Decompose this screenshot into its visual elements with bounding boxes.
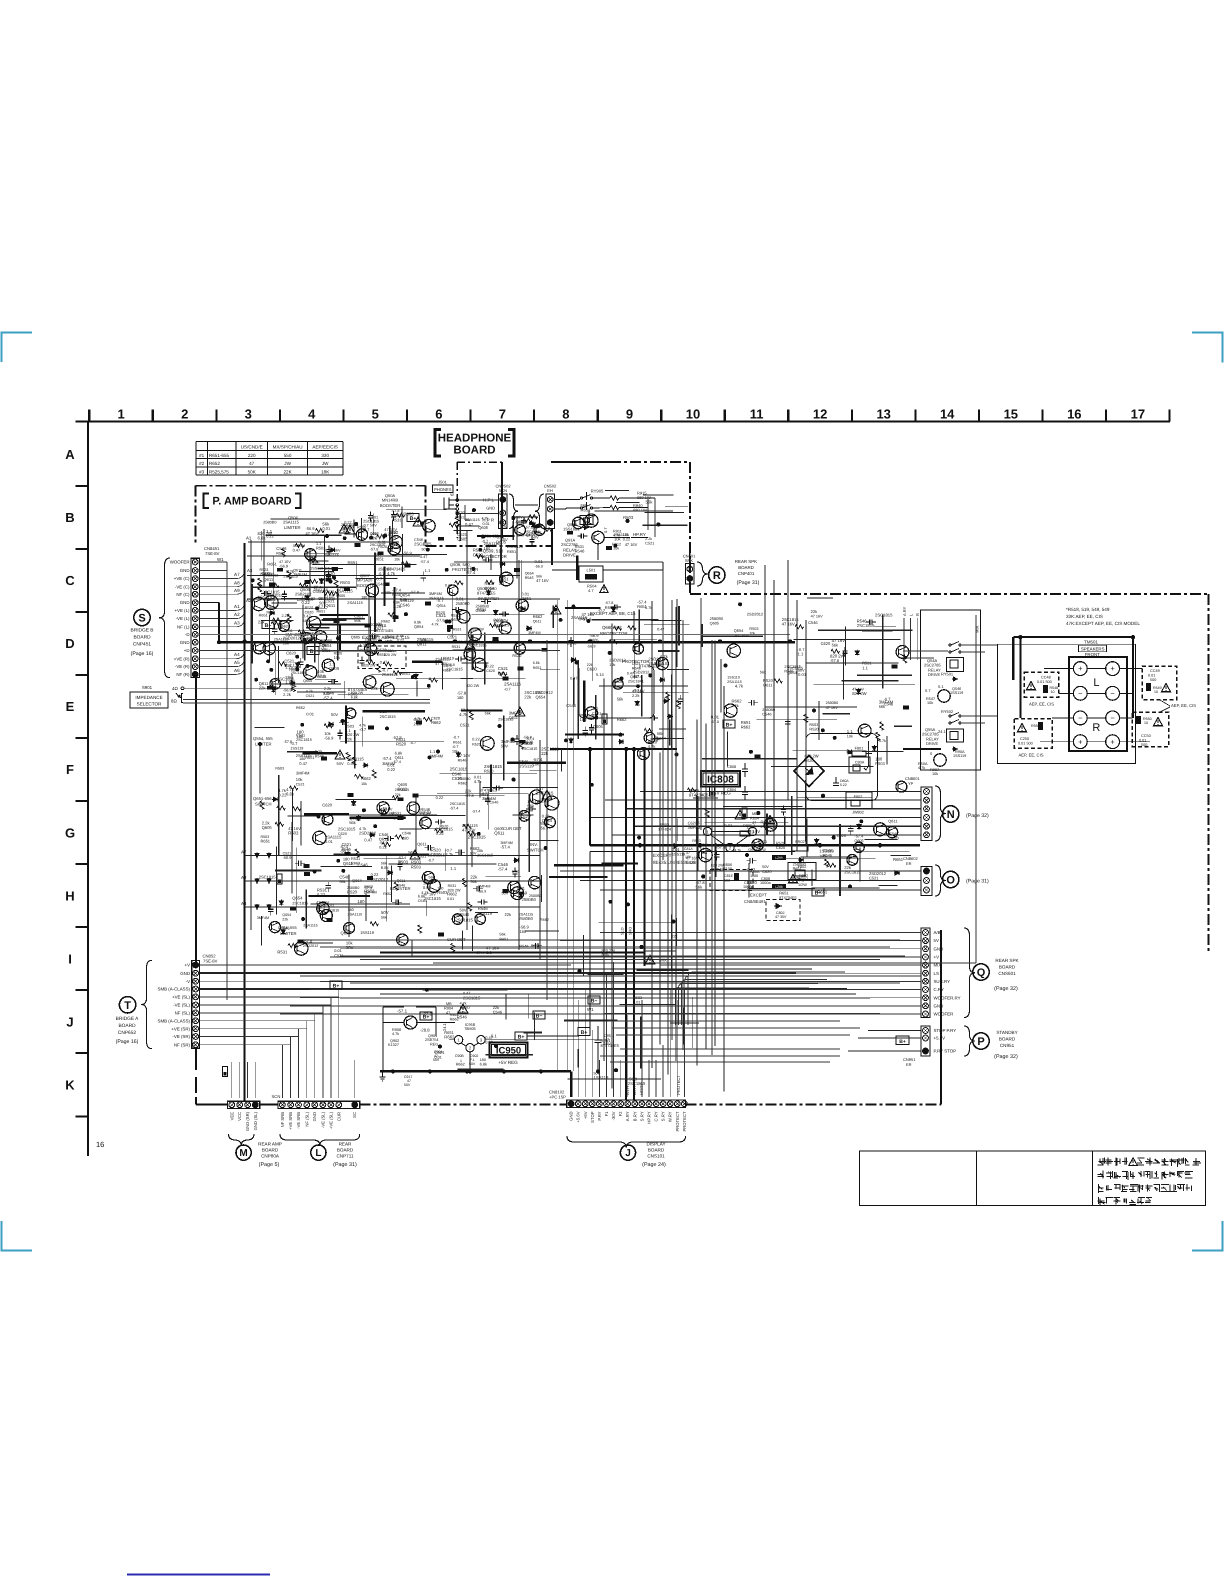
svg-text:T: T — [124, 1000, 131, 1012]
svg-text:A7: A7 — [234, 572, 240, 577]
wire S hook wires A1-A9 — [227, 572, 244, 674]
svg-text:R525,575: R525,575 — [209, 469, 229, 474]
node QMN labels — [380, 493, 400, 508]
component relay drive block — [918, 610, 981, 776]
svg-text:R531: R531 — [453, 627, 462, 631]
svg-text:50V: 50V — [532, 535, 540, 540]
svg-text:2.2k: 2.2k — [283, 692, 292, 697]
component relay JW802 — [846, 792, 872, 809]
svg-text:22k: 22k — [395, 793, 401, 797]
node S board text — [131, 628, 154, 658]
svg-text:BOARD: BOARD — [738, 565, 754, 570]
svg-text:L501: L501 — [587, 568, 597, 573]
node R504 text — [587, 584, 608, 594]
svg-text:4.7: 4.7 — [588, 588, 594, 593]
svg-text:GND: GND — [486, 506, 495, 511]
svg-text:24.1: 24.1 — [938, 729, 947, 734]
svg-text:R503: R503 — [749, 627, 758, 631]
wire vertical bus SRO — [633, 749, 635, 1100]
svg-text:IMPEDANCE: IMPEDANCE — [135, 695, 162, 700]
svg-text:(Page 16): (Page 16) — [131, 651, 154, 657]
component S901 impedance selector — [130, 685, 184, 708]
svg-text:56k: 56k — [879, 705, 885, 709]
wire bus y845 — [590, 844, 920, 846]
svg-text:8T4734E5: 8T4734E5 — [480, 788, 498, 792]
svg-text:+VE (L): +VE (L) — [174, 608, 190, 613]
svg-text:0.01: 0.01 — [633, 1001, 640, 1005]
svg-text:CUR DET: CUR DET — [503, 826, 522, 831]
wire rail x467 — [466, 530, 468, 930]
svg-text:R520: R520 — [347, 890, 358, 895]
svg-text:CC49: CC49 — [1150, 669, 1160, 673]
svg-text:10k: 10k — [932, 772, 938, 776]
node boxed B- row D — [262, 621, 274, 629]
node boxed B+ ic950 a — [515, 1032, 527, 1040]
svg-text:A8: A8 — [234, 580, 240, 585]
wire horizontal h2 — [380, 968, 812, 970]
wire blue footer line — [127, 1574, 270, 1576]
svg-text:2SC1815: 2SC1815 — [450, 802, 465, 806]
svg-text:2SA1115: 2SA1115 — [348, 912, 363, 916]
node protector rounded box — [579, 666, 654, 718]
wire bus y851 — [590, 851, 795, 853]
node warning triangle 5 — [465, 640, 475, 649]
svg-text:CNP401: CNP401 — [738, 571, 755, 576]
svg-text:C620: C620 — [486, 669, 495, 673]
node IC950 values — [442, 1022, 497, 1038]
transistor Q647 — [613, 679, 623, 689]
svg-text:R503: R503 — [761, 820, 771, 825]
wire vertical bus SLO — [625, 749, 627, 1100]
svg-text:180: 180 — [484, 546, 491, 551]
svg-text:4.7k: 4.7k — [432, 623, 439, 627]
svg-text:3MF4M: 3MF4M — [688, 826, 701, 830]
svg-text:R662: R662 — [310, 561, 320, 566]
svg-text:−: − — [1110, 689, 1115, 698]
svg-text:LS: LS — [934, 971, 939, 976]
svg-text:W1: W1 — [217, 557, 224, 562]
svg-text:−: − — [1110, 714, 1115, 723]
svg-text:-VE (SR): -VE (SR) — [172, 1034, 190, 1039]
wire vertical thin x574 — [573, 605, 575, 1071]
svg-text:0.01: 0.01 — [435, 1056, 442, 1060]
svg-text:NF (SL): NF (SL) — [304, 1111, 309, 1126]
svg-text:WOOFER.RY: WOOFER.RY — [934, 995, 961, 1000]
node label CN951 low — [903, 1057, 916, 1067]
svg-text:-0.7: -0.7 — [359, 727, 367, 732]
component RY905 relay coil — [580, 516, 593, 525]
svg-text:BOARD: BOARD — [648, 1148, 665, 1153]
node M strip pin labels — [229, 1111, 257, 1131]
svg-text:R503: R503 — [411, 864, 422, 869]
svg-text:R662: R662 — [458, 781, 467, 785]
node protector label mid — [600, 625, 627, 636]
svg-text:1SS119: 1SS119 — [360, 930, 375, 935]
svg-text:820 2W: 820 2W — [466, 684, 479, 688]
component IC950 label box — [490, 1043, 528, 1058]
svg-text:2SD2012: 2SD2012 — [303, 944, 318, 948]
node J feed junction dots — [391, 1070, 542, 1073]
svg-text:CC50: CC50 — [1141, 734, 1151, 738]
svg-text:-V: -V — [186, 979, 190, 984]
svg-text:R651: R651 — [499, 937, 508, 941]
svg-text:R651: R651 — [261, 839, 271, 844]
svg-text:Q611: Q611 — [263, 577, 274, 582]
node R board text — [735, 559, 760, 586]
wire rail y575 — [247, 575, 520, 577]
node LY88 labels — [772, 855, 786, 889]
svg-text:2SC1815: 2SC1815 — [784, 664, 801, 669]
svg-text:REAR AMP: REAR AMP — [258, 1142, 282, 1147]
svg-text:1SS119: 1SS119 — [310, 567, 323, 571]
node R805 text — [740, 824, 755, 836]
svg-text:F801: F801 — [855, 747, 864, 751]
wire top ruler line — [76, 420, 1171, 422]
svg-text:C521: C521 — [334, 953, 343, 958]
node texture ic950 small — [423, 988, 551, 1069]
svg-text:4: 4 — [308, 407, 316, 422]
node texture power mid — [672, 780, 911, 900]
svg-text:-0.7: -0.7 — [482, 539, 489, 543]
svg-text:56k: 56k — [832, 643, 838, 648]
svg-text:3MF4M: 3MF4M — [879, 699, 894, 704]
svg-text:Q611: Q611 — [494, 830, 505, 835]
svg-text:56k: 56k — [646, 499, 654, 504]
svg-text:R546: R546 — [823, 853, 832, 857]
svg-text:R520: R520 — [472, 742, 481, 746]
svg-text:820 2W: 820 2W — [805, 753, 819, 758]
svg-text:2580B0: 2580B0 — [762, 708, 775, 712]
svg-text:-56.9: -56.9 — [340, 849, 350, 854]
svg-text:R662: R662 — [361, 776, 371, 781]
svg-text:47: 47 — [249, 461, 255, 466]
svg-text:C804: C804 — [727, 788, 736, 792]
svg-text:#2: #2 — [199, 461, 205, 466]
svg-text:2580B0: 2580B0 — [456, 601, 471, 606]
wire J heavy feed — [380, 1070, 571, 1072]
svg-text:NF (SR): NF (SR) — [174, 1042, 191, 1047]
svg-text:C546: C546 — [397, 884, 406, 888]
svg-text:-30V: -30V — [611, 1111, 616, 1120]
node hp misc texts — [603, 527, 622, 551]
svg-text:MX/SP/CH/AU: MX/SP/CH/AU — [273, 444, 303, 449]
node warning triangle 2 — [542, 790, 552, 799]
svg-text:-56.9: -56.9 — [535, 564, 543, 568]
svg-text:0.22: 0.22 — [747, 867, 756, 872]
svg-text:Q611: Q611 — [888, 818, 897, 823]
connector CN401 R strip — [686, 564, 695, 585]
svg-text:+: + — [1110, 737, 1115, 746]
node brace N — [935, 786, 946, 841]
component IC808 label box — [701, 771, 740, 787]
svg-text:W.RY: W.RY — [668, 1111, 673, 1122]
svg-text:820 2W: 820 2W — [384, 653, 397, 657]
svg-text:10k: 10k — [794, 876, 802, 881]
svg-text:2.2k: 2.2k — [282, 614, 289, 618]
wire bus y562 — [454, 561, 663, 563]
svg-text:CN951: CN951 — [1000, 1043, 1015, 1048]
svg-text:A: A — [65, 447, 75, 462]
wire T fan buses — [199, 965, 847, 1045]
wire horizontal h1 — [380, 952, 645, 954]
node circle S — [134, 609, 150, 625]
svg-text:(Page 16): (Page 16) — [116, 1039, 139, 1045]
svg-text:1: 1 — [117, 407, 124, 422]
svg-text:2SC1815: 2SC1815 — [363, 519, 379, 524]
node texture jbus — [564, 915, 699, 1087]
svg-text:(Page 24): (Page 24) — [642, 1162, 666, 1168]
svg-text:4.7k: 4.7k — [421, 890, 428, 895]
wire hp relay wires — [552, 498, 655, 565]
svg-text:JW802: JW802 — [852, 811, 864, 815]
svg-text:820 2W: 820 2W — [346, 732, 360, 737]
svg-text:HP.RY: HP.RY — [633, 532, 646, 537]
svg-text:(Page 31): (Page 31) — [737, 580, 760, 586]
svg-text:GND: GND — [180, 640, 190, 645]
svg-text:Q654: Q654 — [536, 694, 547, 699]
svg-text:Q654: Q654 — [414, 624, 424, 629]
svg-text:8T4734E5: 8T4734E5 — [601, 1043, 620, 1048]
component JWB02 relay — [788, 863, 816, 880]
node brace O — [935, 865, 946, 896]
svg-text:R531: R531 — [392, 812, 401, 816]
svg-text:C521: C521 — [869, 876, 879, 881]
connector CNP502 strip — [499, 494, 508, 529]
svg-text:50V: 50V — [501, 743, 508, 748]
svg-text:BOARD: BOARD — [133, 635, 151, 641]
svg-text:5.14: 5.14 — [596, 672, 605, 677]
svg-text:BOARD: BOARD — [337, 1148, 354, 1153]
svg-text:Q605: Q605 — [516, 519, 527, 524]
svg-text:-0.7: -0.7 — [452, 745, 459, 749]
node R809 warn — [789, 874, 809, 887]
svg-text:R520: R520 — [436, 611, 445, 615]
svg-text:R651: R651 — [267, 562, 277, 567]
svg-text:C620: C620 — [821, 641, 831, 646]
svg-text:GND: GND — [312, 1112, 317, 1121]
svg-text:R662: R662 — [431, 720, 441, 725]
node AEP pointer — [1160, 700, 1196, 712]
svg-text:0.22: 0.22 — [436, 795, 444, 800]
svg-text:SPEAKERS: SPEAKERS — [1081, 647, 1105, 652]
svg-text:2SC1815: 2SC1815 — [468, 835, 486, 840]
node warning triangle 7 — [410, 850, 420, 859]
node warning triangle 6 — [515, 707, 525, 716]
resistor R915 — [610, 496, 619, 500]
svg-text:5V: 5V — [934, 938, 939, 943]
svg-text:2SA1115: 2SA1115 — [429, 597, 444, 601]
svg-text:G: G — [65, 825, 75, 840]
node cap bank — [404, 1050, 478, 1087]
svg-text:56k: 56k — [385, 590, 391, 595]
node speaker inner frame — [997, 644, 1135, 763]
svg-text:(Page 32): (Page 32) — [994, 986, 1018, 992]
svg-text:P.RY STOP: P.RY STOP — [934, 1049, 957, 1054]
svg-text:56k: 56k — [499, 933, 505, 937]
svg-text:EXCEPT: EXCEPT — [750, 893, 767, 898]
component RY905 switches — [580, 492, 592, 510]
svg-text:-VE (SL): -VE (SL) — [320, 1111, 325, 1128]
svg-text:0.01 500: 0.01 500 — [1037, 680, 1052, 684]
svg-text:0.7: 0.7 — [925, 688, 931, 693]
svg-text:DISPLAY: DISPLAY — [646, 1142, 665, 1147]
svg-text:Q611: Q611 — [325, 603, 336, 608]
svg-text:-56.9: -56.9 — [403, 550, 412, 555]
svg-text:IC808: IC808 — [707, 775, 734, 786]
node T strip pin labels — [158, 963, 191, 1048]
svg-text:17: 17 — [1131, 407, 1145, 422]
svg-text:0.01: 0.01 — [798, 672, 807, 677]
node brace P — [964, 1026, 975, 1056]
svg-text:R: R — [713, 570, 721, 582]
svg-text:16: 16 — [1067, 407, 1081, 422]
svg-text:+: + — [1110, 664, 1115, 673]
node C951 cap — [595, 1032, 614, 1050]
svg-text:R662: R662 — [444, 1035, 455, 1040]
svg-text:B−: B− — [591, 999, 598, 1005]
svg-text:2SA1115: 2SA1115 — [314, 588, 329, 592]
svg-text:R503: R503 — [275, 767, 284, 771]
svg-text:-56.9: -56.9 — [324, 736, 334, 741]
node brace M — [229, 1134, 255, 1145]
node except labels — [653, 853, 696, 865]
svg-text:PROTECT: PROTECT — [675, 1111, 680, 1131]
svg-text:10: 10 — [1051, 690, 1055, 694]
svg-text:-57.4: -57.4 — [450, 807, 459, 811]
svg-text:R662: R662 — [617, 717, 627, 722]
svg-text:A1: A1 — [246, 536, 252, 541]
component TM501 speakers block — [1069, 640, 1127, 752]
svg-text:2SC1815: 2SC1815 — [277, 677, 295, 682]
node ruler ticks top — [89, 410, 1169, 422]
svg-text:J: J — [66, 1014, 73, 1029]
svg-text:1SS119: 1SS119 — [953, 754, 966, 758]
svg-text:7: 7 — [499, 407, 506, 422]
svg-text:-57.8: -57.8 — [303, 938, 313, 943]
svg-text:5: 5 — [372, 407, 379, 422]
node crop mark top-right — [1192, 333, 1223, 363]
node Q554 lim — [253, 736, 273, 747]
node texture amp lower-left — [254, 706, 561, 958]
svg-text:-57.4: -57.4 — [466, 570, 476, 575]
node circle R — [709, 567, 725, 583]
svg-text:B+: B+ — [581, 1030, 588, 1036]
svg-text:0.01: 0.01 — [483, 522, 490, 526]
svg-text:0.47: 0.47 — [657, 627, 664, 631]
svg-text:R662: R662 — [383, 892, 392, 896]
svg-text:3MF4M: 3MF4M — [418, 811, 431, 815]
wire T strip top lead — [195, 940, 197, 960]
svg-text:R652: R652 — [209, 461, 220, 466]
svg-text:-57.4: -57.4 — [393, 760, 401, 764]
svg-text:13: 13 — [876, 407, 890, 422]
connector CN8602 O strip — [921, 867, 932, 896]
svg-text:C620: C620 — [322, 803, 332, 808]
svg-text:CNS601: CNS601 — [998, 971, 1016, 976]
svg-text:R662: R662 — [741, 725, 751, 730]
svg-text:NF (SL): NF (SL) — [175, 1011, 191, 1016]
svg-text:C546: C546 — [808, 620, 818, 625]
wire bus y749 dots — [588, 747, 635, 750]
component option box CC48 — [1024, 672, 1058, 707]
svg-text:EH: EH — [547, 488, 553, 493]
connector CN951 P strip — [921, 1026, 930, 1056]
svg-text:22k: 22k — [390, 534, 396, 539]
svg-text:MIX: MIX — [934, 963, 942, 968]
svg-text:BOARD: BOARD — [118, 1023, 136, 1029]
svg-text:CUR DET: CUR DET — [447, 937, 466, 942]
svg-text:2580B0: 2580B0 — [793, 862, 806, 866]
component C813 parts — [673, 840, 708, 859]
svg-text:GND (SL): GND (SL) — [253, 1111, 258, 1130]
svg-text:6.8k: 6.8k — [258, 536, 267, 541]
svg-text:-57.4: -57.4 — [498, 867, 508, 872]
svg-text:0.01: 0.01 — [306, 711, 315, 716]
svg-text:-57.1: -57.1 — [397, 1009, 408, 1014]
svg-text:GND: GND — [934, 946, 944, 951]
svg-text:5.22: 5.22 — [840, 783, 847, 787]
svg-text:2SC1815: 2SC1815 — [522, 747, 538, 751]
node P strip pin labels — [934, 1028, 957, 1054]
svg-text:-57.8: -57.8 — [410, 590, 419, 594]
wire speaker area right border — [1208, 594, 1210, 952]
node ruler letters A-K — [65, 447, 75, 1093]
node circle Q — [973, 964, 989, 980]
component option box C250 — [1014, 719, 1052, 758]
svg-text:6: 6 — [435, 407, 442, 422]
svg-text:P: P — [977, 1036, 984, 1048]
node inv switch — [527, 842, 544, 853]
component L501 box — [579, 566, 603, 582]
svg-text:0.47: 0.47 — [420, 555, 427, 559]
svg-text:J: J — [625, 1148, 631, 1159]
svg-text:6.8k: 6.8k — [533, 661, 540, 665]
wire bottom border L-J — [360, 1104, 567, 1106]
svg-text:JW: JW — [322, 461, 329, 466]
svg-text:R546: R546 — [457, 1015, 468, 1020]
svg-text:SCN: SCN — [272, 1094, 281, 1099]
svg-text:-VE (SL): -VE (SL) — [173, 1003, 190, 1008]
svg-text:Q605: Q605 — [854, 839, 863, 843]
svg-text:47 16V: 47 16V — [458, 753, 471, 758]
svg-text:R520: R520 — [460, 1005, 471, 1010]
svg-text:R651: R651 — [581, 507, 592, 512]
svg-text:K: K — [65, 1078, 75, 1093]
svg-text:L: L — [315, 1148, 321, 1159]
svg-text:0.01: 0.01 — [378, 540, 386, 545]
svg-text:R662: R662 — [470, 846, 480, 851]
svg-text:180: 180 — [297, 734, 305, 739]
svg-text:NF SRB: NF SRB — [280, 1112, 285, 1128]
svg-text:500: 500 — [1150, 678, 1156, 682]
node boxed B- ic950 a — [588, 996, 600, 1004]
wire R feed top — [689, 544, 691, 566]
wire rail y556 — [247, 555, 420, 557]
svg-text:2SC1815: 2SC1815 — [450, 767, 468, 772]
wire left ruler line — [87, 422, 89, 1157]
svg-text:2SC1815: 2SC1815 — [875, 612, 893, 617]
svg-text:C620: C620 — [305, 611, 314, 615]
svg-text:LIMITER: LIMITER — [284, 525, 301, 530]
wire switch to resistors — [593, 498, 655, 508]
node ruler numbers 1-17 — [117, 407, 1145, 422]
svg-text:R651: R651 — [480, 793, 489, 797]
svg-text:BRIDGE A: BRIDGE A — [116, 1016, 139, 1022]
connector CNP80A M strip — [227, 1101, 259, 1108]
wire vertical x644 — [644, 749, 646, 966]
svg-text:WOOFER: WOOFER — [170, 560, 190, 565]
fuse glyph d — [277, 874, 282, 884]
